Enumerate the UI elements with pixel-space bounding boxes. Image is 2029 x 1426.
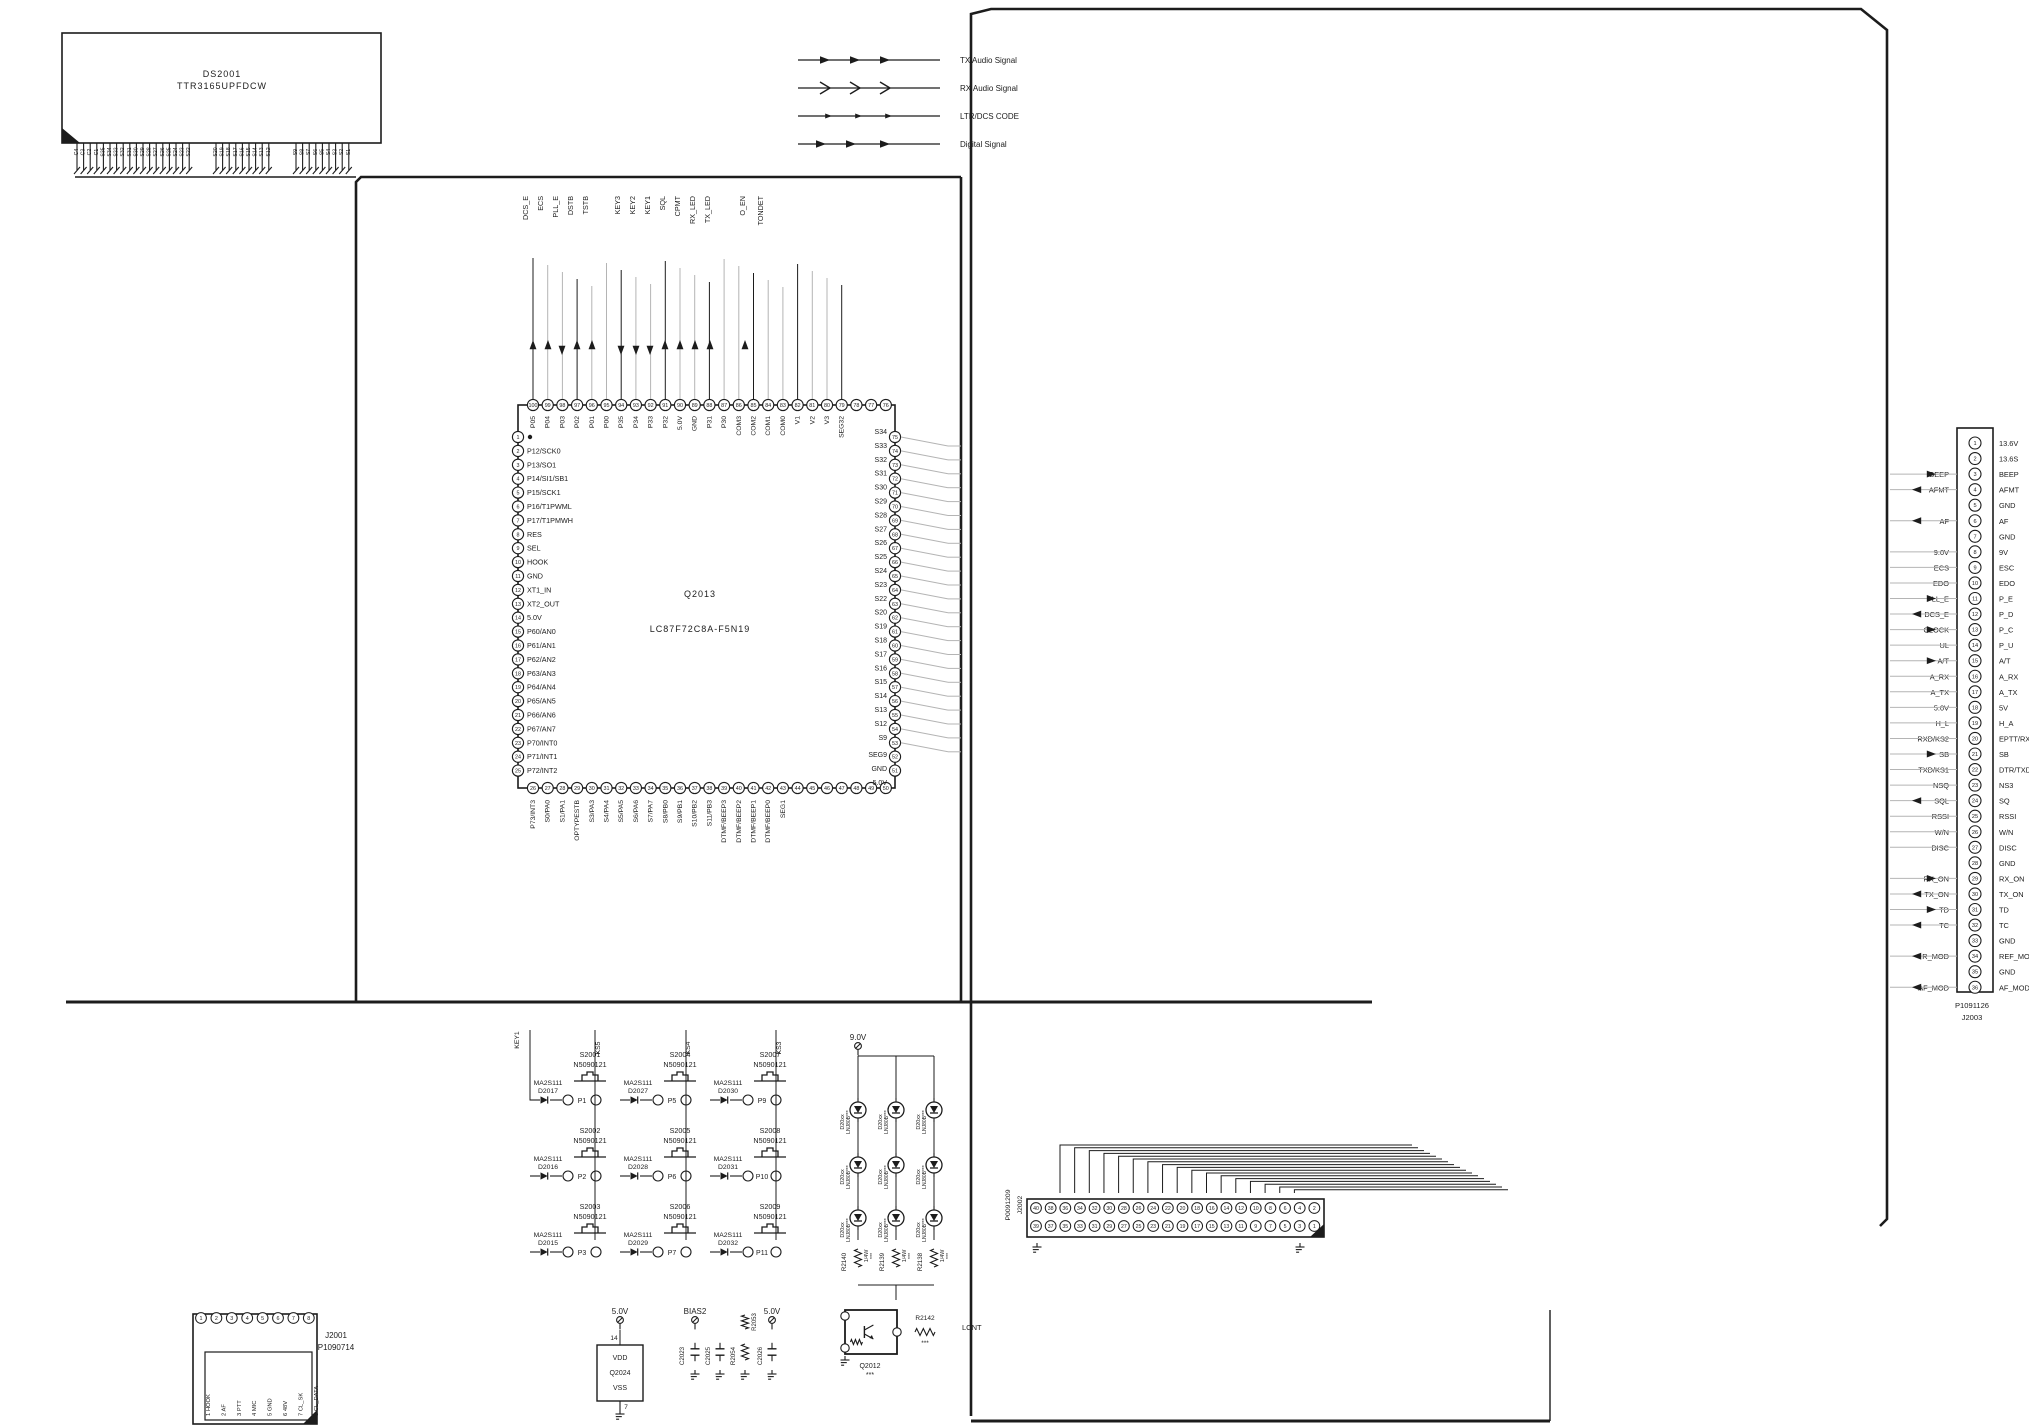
svg-text:C2023: C2023 bbox=[679, 1346, 686, 1365]
svg-text:DS2001: DS2001 bbox=[203, 69, 242, 79]
svg-text:S4/PA4: S4/PA4 bbox=[604, 800, 611, 823]
svg-text:S9: S9 bbox=[293, 149, 299, 155]
svg-text:6: 6 bbox=[517, 505, 520, 511]
svg-text:P65/AN5: P65/AN5 bbox=[527, 697, 556, 706]
svg-text:16: 16 bbox=[1209, 1206, 1215, 1212]
svg-text:TSTB: TSTB bbox=[581, 196, 590, 215]
IC Q2024 VDD/VSS bbox=[597, 1307, 643, 1419]
svg-text:DISC: DISC bbox=[1999, 843, 2017, 852]
legend bbox=[798, 56, 1019, 149]
svg-text:27: 27 bbox=[1121, 1224, 1127, 1230]
svg-text:21: 21 bbox=[1972, 752, 1978, 758]
svg-text:GND: GND bbox=[871, 766, 887, 773]
svg-text:15: 15 bbox=[1209, 1224, 1215, 1230]
svg-text:6: 6 bbox=[277, 1316, 280, 1322]
svg-text:S2: S2 bbox=[339, 149, 345, 155]
svg-text:S15: S15 bbox=[246, 147, 252, 156]
svg-text:S31: S31 bbox=[127, 147, 133, 156]
svg-text:25: 25 bbox=[515, 769, 521, 775]
svg-text:7: 7 bbox=[1973, 534, 1976, 540]
svg-text:3: 3 bbox=[517, 463, 520, 469]
svg-text:EDO: EDO bbox=[1999, 579, 2015, 588]
svg-text:19: 19 bbox=[1972, 721, 1978, 727]
svg-text:23: 23 bbox=[1972, 783, 1978, 789]
svg-text:RES: RES bbox=[527, 530, 542, 539]
svg-text:KS3: KS3 bbox=[776, 1041, 783, 1054]
svg-text:S17: S17 bbox=[875, 651, 888, 658]
svg-text:P30: P30 bbox=[721, 416, 728, 428]
svg-text:24: 24 bbox=[515, 755, 521, 761]
svg-text:S2005: S2005 bbox=[670, 1126, 691, 1135]
svg-text:S28: S28 bbox=[875, 512, 888, 519]
svg-text:33: 33 bbox=[1972, 939, 1978, 945]
svg-text:S2009: S2009 bbox=[760, 1202, 781, 1211]
switch S2003 bbox=[530, 1202, 607, 1257]
svg-text:11: 11 bbox=[1972, 597, 1978, 603]
svg-text:P15/SCK1: P15/SCK1 bbox=[527, 488, 561, 497]
svg-text:S18: S18 bbox=[875, 638, 888, 645]
svg-text:Digital Signal: Digital Signal bbox=[960, 140, 1007, 149]
svg-text:V2: V2 bbox=[809, 416, 816, 425]
svg-text:S31: S31 bbox=[875, 471, 888, 478]
svg-text:8: 8 bbox=[1269, 1206, 1272, 1212]
svg-text:40: 40 bbox=[736, 786, 742, 792]
svg-text:59: 59 bbox=[892, 657, 898, 663]
svg-text:4 MIC: 4 MIC bbox=[252, 1401, 258, 1416]
svg-text:11: 11 bbox=[1238, 1224, 1243, 1230]
svg-text:P_U: P_U bbox=[1999, 641, 2013, 650]
bias caps bottom bbox=[679, 1307, 781, 1379]
svg-text:P71/INT1: P71/INT1 bbox=[527, 752, 557, 761]
svg-text:COM2: COM2 bbox=[751, 416, 758, 436]
svg-text:S7/PA7: S7/PA7 bbox=[648, 800, 655, 823]
svg-text:S33: S33 bbox=[875, 443, 888, 450]
svg-text:P34: P34 bbox=[633, 416, 640, 428]
svg-text:24: 24 bbox=[1150, 1206, 1156, 1212]
svg-text:14: 14 bbox=[515, 616, 521, 622]
svg-text:S24: S24 bbox=[173, 147, 179, 156]
svg-text:4: 4 bbox=[517, 477, 520, 483]
svg-text:MA2S111: MA2S111 bbox=[624, 1080, 653, 1087]
svg-text:P64/AN4: P64/AN4 bbox=[527, 683, 556, 692]
svg-text:5.0V: 5.0V bbox=[527, 613, 542, 622]
svg-text:63: 63 bbox=[892, 602, 898, 608]
svg-text:22: 22 bbox=[1972, 768, 1978, 774]
svg-text:14: 14 bbox=[1972, 643, 1978, 649]
svg-text:MA2S111: MA2S111 bbox=[714, 1080, 743, 1087]
svg-text:2: 2 bbox=[517, 449, 520, 455]
svg-text:EPTT/RXD: EPTT/RXD bbox=[1999, 734, 2029, 743]
svg-text:***: *** bbox=[946, 1252, 952, 1259]
svg-text:S11/PB3: S11/PB3 bbox=[706, 800, 713, 827]
svg-text:2: 2 bbox=[1973, 457, 1976, 463]
svg-text:5.0V: 5.0V bbox=[612, 1307, 629, 1316]
svg-text:OPTYPESTB: OPTYPESTB bbox=[574, 800, 581, 841]
svg-text:26: 26 bbox=[1972, 830, 1978, 836]
svg-text:10: 10 bbox=[515, 560, 521, 566]
svg-text:25: 25 bbox=[1136, 1224, 1142, 1230]
svg-text:MA2S111: MA2S111 bbox=[534, 1156, 563, 1163]
svg-text:P63/AN3: P63/AN3 bbox=[527, 669, 556, 678]
svg-text:D2029: D2029 bbox=[628, 1240, 648, 1247]
svg-text:68: 68 bbox=[892, 532, 898, 538]
svg-text:S6/PA6: S6/PA6 bbox=[633, 800, 640, 823]
svg-text:8: 8 bbox=[307, 1316, 310, 1322]
svg-text:H_A: H_A bbox=[1999, 719, 2013, 728]
svg-text:TX_LED: TX_LED bbox=[703, 196, 712, 223]
svg-text:82: 82 bbox=[795, 403, 801, 409]
svg-text:6: 6 bbox=[1973, 519, 1976, 525]
svg-text:LNJ80B***: LNJ80B*** bbox=[846, 1165, 852, 1189]
J2002 grounds bbox=[1033, 1243, 1305, 1252]
J2002 label bbox=[1005, 1189, 1024, 1220]
svg-text:Q2012: Q2012 bbox=[859, 1363, 880, 1370]
svg-text:2: 2 bbox=[1313, 1206, 1316, 1212]
MCU block border bbox=[356, 177, 961, 1002]
svg-text:KEY3: KEY3 bbox=[613, 196, 622, 214]
svg-text:P1090714: P1090714 bbox=[318, 1343, 355, 1352]
svg-text:S22: S22 bbox=[875, 596, 888, 603]
svg-text:D2017: D2017 bbox=[538, 1088, 558, 1095]
svg-text:41: 41 bbox=[751, 786, 757, 792]
svg-text:S5: S5 bbox=[319, 149, 325, 155]
svg-text:16: 16 bbox=[1972, 674, 1978, 680]
svg-text:46: 46 bbox=[824, 786, 830, 792]
svg-text:29: 29 bbox=[1106, 1224, 1112, 1230]
main block border bbox=[971, 9, 1887, 1421]
svg-text:SEG9: SEG9 bbox=[868, 752, 887, 759]
svg-text:S1: S1 bbox=[346, 149, 352, 155]
svg-text:GND: GND bbox=[692, 416, 699, 431]
svg-text:TC: TC bbox=[1999, 921, 2010, 930]
svg-text:28: 28 bbox=[1121, 1206, 1127, 1212]
svg-text:34: 34 bbox=[1077, 1206, 1083, 1212]
svg-text:S2002: S2002 bbox=[580, 1126, 601, 1135]
svg-text:D2015: D2015 bbox=[538, 1240, 558, 1247]
MCU right pins bbox=[868, 429, 900, 787]
svg-text:GND: GND bbox=[1999, 532, 2015, 541]
svg-text:42: 42 bbox=[765, 786, 771, 792]
svg-text:67: 67 bbox=[892, 546, 898, 552]
svg-text:MA2S111: MA2S111 bbox=[624, 1232, 653, 1239]
svg-text:5.0V: 5.0V bbox=[677, 416, 684, 430]
wire display bus bbox=[75, 176, 356, 178]
svg-text:KEY1: KEY1 bbox=[514, 1031, 521, 1049]
svg-text:29: 29 bbox=[574, 786, 580, 792]
svg-text:VSS: VSS bbox=[613, 1385, 627, 1392]
svg-text:12: 12 bbox=[1972, 612, 1978, 618]
svg-text:D2016: D2016 bbox=[538, 1164, 558, 1171]
svg-text:P01: P01 bbox=[589, 416, 596, 428]
svg-text:70: 70 bbox=[892, 505, 898, 511]
switch S2002 bbox=[530, 1126, 607, 1181]
svg-text:18: 18 bbox=[1972, 705, 1978, 711]
svg-text:O_EN: O_EN bbox=[738, 196, 747, 216]
svg-text:35: 35 bbox=[1972, 970, 1978, 976]
svg-text:LNJ80B***: LNJ80B*** bbox=[922, 1218, 928, 1242]
MCU right wires bbox=[901, 437, 961, 752]
svg-text:P04: P04 bbox=[545, 416, 552, 428]
svg-text:S8: S8 bbox=[300, 149, 306, 155]
svg-text:J2003: J2003 bbox=[1962, 1013, 1983, 1022]
svg-text:LC87F72C8A-F5N19: LC87F72C8A-F5N19 bbox=[650, 624, 751, 634]
svg-text:S13: S13 bbox=[259, 147, 265, 156]
svg-text:N5090121: N5090121 bbox=[663, 1060, 696, 1069]
svg-text:N5090121: N5090121 bbox=[753, 1212, 786, 1221]
MCU bottom pins bbox=[527, 782, 891, 842]
svg-text:S28: S28 bbox=[147, 147, 153, 156]
svg-text:P_D: P_D bbox=[1999, 610, 2013, 619]
MCU top wire arrows bbox=[530, 340, 749, 355]
svg-text:A_TX: A_TX bbox=[1999, 688, 2018, 697]
LCD pin stubs bbox=[74, 143, 352, 174]
svg-text:DTMF/BEEP3: DTMF/BEEP3 bbox=[721, 800, 728, 843]
svg-text:54: 54 bbox=[892, 727, 898, 733]
svg-text:3 PTT: 3 PTT bbox=[237, 1400, 243, 1416]
svg-text:10: 10 bbox=[1253, 1206, 1259, 1212]
svg-text:18: 18 bbox=[1194, 1206, 1200, 1212]
svg-text:S24: S24 bbox=[875, 568, 888, 575]
svg-text:S29: S29 bbox=[140, 147, 146, 156]
svg-text:65: 65 bbox=[892, 574, 898, 580]
svg-text:S27: S27 bbox=[153, 147, 159, 156]
svg-text:C1: C1 bbox=[94, 149, 100, 156]
svg-text:24: 24 bbox=[1972, 799, 1978, 805]
svg-text:S22: S22 bbox=[186, 147, 192, 156]
svg-text:P72/INT2: P72/INT2 bbox=[527, 766, 557, 775]
switch S2007 bbox=[710, 1050, 787, 1105]
J2002 wire bundle bbox=[1060, 1145, 1398, 1193]
svg-text:39: 39 bbox=[721, 786, 727, 792]
svg-text:***: *** bbox=[866, 1372, 874, 1379]
svg-text:S6: S6 bbox=[313, 149, 319, 155]
svg-text:6 48V: 6 48V bbox=[283, 1401, 289, 1416]
svg-text:TX_ON: TX_ON bbox=[1999, 890, 2024, 899]
svg-text:PLL_E: PLL_E bbox=[551, 196, 560, 218]
svg-text:N5090121: N5090121 bbox=[663, 1212, 696, 1221]
svg-text:37: 37 bbox=[1048, 1224, 1054, 1230]
svg-text:92: 92 bbox=[648, 403, 654, 409]
svg-text:35: 35 bbox=[1062, 1224, 1068, 1230]
svg-text:S12: S12 bbox=[266, 147, 272, 156]
svg-text:TX Audio Signal: TX Audio Signal bbox=[960, 56, 1017, 65]
svg-text:P11: P11 bbox=[756, 1250, 768, 1257]
svg-text:P66/AN6: P66/AN6 bbox=[527, 711, 556, 720]
svg-text:LNJ80B***: LNJ80B*** bbox=[884, 1218, 890, 1242]
svg-text:56: 56 bbox=[892, 699, 898, 705]
svg-text:71: 71 bbox=[892, 491, 898, 497]
svg-text:P13/SO1: P13/SO1 bbox=[527, 460, 556, 469]
svg-text:37: 37 bbox=[692, 786, 698, 792]
svg-text:29: 29 bbox=[1972, 876, 1978, 882]
svg-text:36: 36 bbox=[1062, 1206, 1068, 1212]
svg-text:S20: S20 bbox=[213, 147, 219, 156]
svg-text:40: 40 bbox=[1033, 1206, 1039, 1212]
svg-text:S14: S14 bbox=[253, 147, 259, 156]
svg-text:P17/T1PMWH: P17/T1PMWH bbox=[527, 516, 573, 525]
svg-text:21: 21 bbox=[515, 713, 521, 719]
svg-text:17: 17 bbox=[515, 657, 521, 663]
svg-text:***: *** bbox=[921, 1340, 929, 1347]
svg-text:23: 23 bbox=[1150, 1224, 1156, 1230]
svg-text:58: 58 bbox=[892, 671, 898, 677]
svg-text:A_RX: A_RX bbox=[1999, 672, 2018, 681]
svg-text:RX_LED: RX_LED bbox=[688, 196, 697, 224]
J2002 wire bundle right bbox=[1190, 1145, 1508, 1190]
svg-text:N5090121: N5090121 bbox=[753, 1136, 786, 1145]
svg-text:5: 5 bbox=[1973, 503, 1976, 509]
svg-text:AF_MOD: AF_MOD bbox=[1999, 983, 2029, 992]
svg-text:P7: P7 bbox=[668, 1250, 677, 1257]
svg-text:1: 1 bbox=[517, 435, 520, 441]
svg-text:38: 38 bbox=[706, 786, 712, 792]
svg-text:14: 14 bbox=[610, 1335, 618, 1342]
svg-text:83: 83 bbox=[780, 403, 786, 409]
svg-text:LNJ80B***: LNJ80B*** bbox=[884, 1165, 890, 1189]
svg-text:97: 97 bbox=[574, 403, 580, 409]
svg-text:S3/PA3: S3/PA3 bbox=[589, 800, 596, 823]
svg-text:S2003: S2003 bbox=[580, 1202, 601, 1211]
svg-text:86: 86 bbox=[736, 403, 742, 409]
svg-text:S1/PA1: S1/PA1 bbox=[559, 800, 566, 823]
svg-text:D2031: D2031 bbox=[718, 1164, 738, 1171]
connector J2001 bbox=[193, 1313, 320, 1424]
svg-text:43: 43 bbox=[780, 786, 786, 792]
svg-text:Q2024: Q2024 bbox=[609, 1370, 630, 1377]
svg-text:1: 1 bbox=[200, 1316, 203, 1322]
svg-text:26: 26 bbox=[1136, 1206, 1142, 1212]
svg-text:LNJ80B***: LNJ80B*** bbox=[922, 1165, 928, 1189]
svg-text:C2: C2 bbox=[87, 149, 93, 156]
svg-text:S4: S4 bbox=[326, 149, 332, 155]
svg-text:52: 52 bbox=[892, 755, 898, 761]
svg-text:DTMF/BEEP1: DTMF/BEEP1 bbox=[751, 800, 758, 843]
svg-text:S9: S9 bbox=[878, 735, 887, 742]
svg-text:7: 7 bbox=[1269, 1224, 1272, 1230]
svg-text:LNJ80B***: LNJ80B*** bbox=[884, 1110, 890, 1134]
svg-text:91: 91 bbox=[662, 403, 668, 409]
svg-text:S5/PA5: S5/PA5 bbox=[618, 800, 625, 823]
svg-text:4: 4 bbox=[246, 1316, 249, 1322]
keypad wires bbox=[514, 1030, 783, 1240]
svg-text:W/N: W/N bbox=[1999, 828, 2013, 837]
svg-text:61: 61 bbox=[892, 630, 898, 636]
svg-text:6: 6 bbox=[1284, 1206, 1287, 1212]
svg-text:MA2S111: MA2S111 bbox=[534, 1232, 563, 1239]
svg-text:3: 3 bbox=[230, 1316, 233, 1322]
svg-text:S2008: S2008 bbox=[760, 1126, 781, 1135]
svg-text:RX_ON: RX_ON bbox=[1999, 874, 2024, 883]
svg-text:DSTB: DSTB bbox=[566, 196, 575, 215]
svg-text:LTR/DCS CODE: LTR/DCS CODE bbox=[960, 112, 1019, 121]
svg-text:N5090121: N5090121 bbox=[573, 1060, 606, 1069]
svg-text:69: 69 bbox=[892, 518, 898, 524]
svg-text:36: 36 bbox=[1972, 985, 1978, 991]
svg-text:19: 19 bbox=[515, 685, 521, 691]
svg-text:94: 94 bbox=[618, 403, 624, 409]
svg-text:44: 44 bbox=[795, 786, 801, 792]
svg-text:S29: S29 bbox=[875, 499, 888, 506]
svg-text:SEG32: SEG32 bbox=[839, 416, 846, 438]
svg-text:7: 7 bbox=[517, 518, 520, 524]
svg-text:TONDET: TONDET bbox=[756, 195, 765, 225]
svg-text:R2139: R2139 bbox=[879, 1252, 886, 1271]
svg-text:P6: P6 bbox=[668, 1174, 677, 1181]
svg-text:P_C: P_C bbox=[1999, 626, 2014, 635]
svg-text:1: 1 bbox=[1973, 441, 1976, 447]
svg-text:CPMT: CPMT bbox=[673, 195, 682, 216]
svg-text:34: 34 bbox=[1972, 954, 1978, 960]
svg-text:100: 100 bbox=[529, 403, 538, 409]
svg-text:C2026: C2026 bbox=[757, 1346, 764, 1365]
svg-text:GND: GND bbox=[1999, 968, 2015, 977]
svg-text:V1: V1 bbox=[795, 416, 802, 425]
svg-text:S13: S13 bbox=[875, 707, 888, 714]
svg-text:33: 33 bbox=[1077, 1224, 1083, 1230]
svg-text:KEY2: KEY2 bbox=[628, 196, 637, 214]
svg-text:P5: P5 bbox=[668, 1098, 677, 1105]
svg-text:90: 90 bbox=[677, 403, 683, 409]
MCU Q2013 bbox=[518, 405, 895, 788]
svg-text:S8/PB0: S8/PB0 bbox=[662, 800, 669, 823]
svg-text:1: 1 bbox=[1313, 1224, 1316, 1230]
svg-text:S18: S18 bbox=[226, 147, 232, 156]
svg-text:SEG1: SEG1 bbox=[780, 800, 787, 818]
svg-text:S34: S34 bbox=[875, 429, 888, 436]
svg-text:N5090121: N5090121 bbox=[663, 1136, 696, 1145]
svg-text:GND: GND bbox=[1999, 859, 2015, 868]
svg-text:3: 3 bbox=[1298, 1224, 1301, 1230]
svg-text:20: 20 bbox=[1180, 1206, 1186, 1212]
svg-text:89: 89 bbox=[692, 403, 698, 409]
svg-text:NS3: NS3 bbox=[1999, 781, 2013, 790]
svg-text:51: 51 bbox=[892, 769, 898, 775]
LED driver Q2012 bbox=[841, 1310, 983, 1379]
svg-text:VDD: VDD bbox=[613, 1355, 628, 1362]
svg-text:20: 20 bbox=[1972, 736, 1978, 742]
svg-text:31: 31 bbox=[1092, 1224, 1098, 1230]
svg-text:7: 7 bbox=[624, 1404, 628, 1411]
svg-text:A/T: A/T bbox=[1999, 657, 2011, 666]
svg-text:15: 15 bbox=[1972, 659, 1978, 665]
svg-text:14: 14 bbox=[1224, 1206, 1230, 1212]
MCU top labels bbox=[521, 195, 765, 225]
svg-text:32: 32 bbox=[1972, 923, 1978, 929]
svg-text:GND: GND bbox=[1999, 501, 2015, 510]
svg-text:KS4: KS4 bbox=[685, 1041, 692, 1054]
svg-text:P33: P33 bbox=[648, 416, 655, 428]
svg-text:33: 33 bbox=[633, 786, 639, 792]
svg-text:5.0V: 5.0V bbox=[764, 1307, 781, 1316]
svg-text:53: 53 bbox=[892, 741, 898, 747]
svg-text:LNJ80B***: LNJ80B*** bbox=[846, 1110, 852, 1134]
svg-text:22: 22 bbox=[515, 727, 521, 733]
svg-text:P03: P03 bbox=[559, 416, 566, 428]
svg-text:23: 23 bbox=[515, 741, 521, 747]
svg-text:4: 4 bbox=[1298, 1206, 1301, 1212]
svg-text:28: 28 bbox=[559, 786, 565, 792]
svg-text:D2032: D2032 bbox=[718, 1240, 738, 1247]
svg-text:KS5: KS5 bbox=[595, 1041, 602, 1054]
svg-text:P10: P10 bbox=[756, 1174, 769, 1181]
svg-text:S16: S16 bbox=[875, 665, 888, 672]
svg-text:N5090121: N5090121 bbox=[753, 1060, 786, 1069]
svg-text:36: 36 bbox=[677, 786, 683, 792]
svg-text:79: 79 bbox=[839, 403, 845, 409]
svg-text:R2138: R2138 bbox=[917, 1252, 924, 1271]
svg-text:S3: S3 bbox=[333, 149, 339, 155]
svg-text:20: 20 bbox=[515, 699, 521, 705]
